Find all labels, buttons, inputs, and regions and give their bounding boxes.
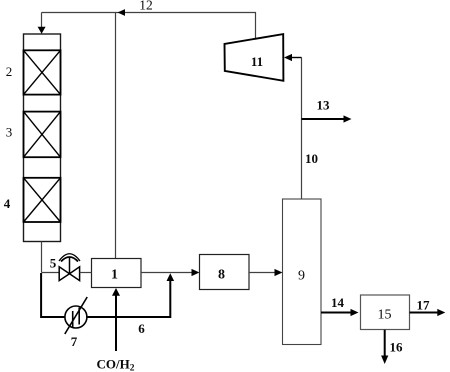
wire: product stream 17: [410, 312, 439, 314]
arrowhead stream 13 (pointing right): [344, 115, 352, 122]
arrowhead into column top: [38, 27, 46, 34]
wire: stream 6 loop to mixing point: [87, 279, 170, 317]
wire: column bottoms line down: [41, 242, 43, 273]
wire: valve to reactor 1: [80, 272, 92, 274]
wire: recycle stream 12 (compressor top to column top): [42, 13, 256, 40]
separator column 9: [283, 199, 322, 345]
valve 5 (control valve bowtie): [59, 254, 80, 281]
unit box 15: [361, 295, 410, 330]
wire: drop into column top: [41, 13, 43, 29]
wire: CO/H2 feed line: [115, 294, 117, 351]
arrowhead into separator 9: [275, 269, 283, 276]
svg-text:6: 6: [138, 321, 145, 336]
wire: bottoms loop down leg: [41, 273, 65, 317]
svg-text:14: 14: [331, 295, 345, 310]
svg-text:CO/H2: CO/H2: [97, 357, 135, 372]
wire: stream 16 down: [384, 330, 386, 358]
svg-text:12: 12: [139, 0, 153, 13]
svg-text:2: 2: [6, 64, 13, 79]
svg-text:5: 5: [50, 256, 57, 271]
svg-text:7: 7: [71, 334, 78, 349]
heat exchanger 7 (circle with zigzag): [65, 297, 87, 334]
reactor box 1: [92, 259, 142, 288]
svg-text:15: 15: [378, 308, 392, 323]
wire: reactor 1 outlet to unit 8: [141, 272, 193, 274]
wire: bottoms stream 14: [321, 312, 352, 314]
svg-text:11: 11: [251, 54, 263, 69]
svg-text:8: 8: [218, 268, 225, 283]
arrowhead CO/H2 feed (pointing up): [112, 288, 120, 296]
packing section 3 (X box): [24, 112, 61, 158]
arrowhead stream 6 (pointing up): [167, 273, 175, 281]
wire: overhead line 10: [301, 58, 303, 200]
arrowhead into compressor 11 (pointing left): [284, 54, 292, 61]
svg-text:10: 10: [305, 151, 318, 166]
compressor 11 (trapezoid): [225, 34, 284, 81]
arrowhead stream 16 (pointing down): [381, 356, 388, 365]
wire: into compressor 11: [291, 57, 302, 59]
column shell (packed column): [24, 34, 61, 242]
arrowhead stream 14 (pointing right): [351, 309, 359, 316]
svg-text:4: 4: [4, 196, 11, 211]
packing section 2 (X box): [24, 50, 61, 94]
svg-text:1: 1: [111, 268, 118, 283]
unit box 8: [200, 255, 250, 290]
wire: purge stream 13: [302, 118, 346, 120]
svg-text:17: 17: [417, 298, 431, 313]
packing section 4 (X box): [24, 178, 61, 222]
wire: to valve 5: [42, 272, 60, 274]
svg-text:16: 16: [390, 340, 404, 355]
svg-text:3: 3: [6, 125, 13, 140]
wire: recycle branch down to reactor 1: [115, 13, 117, 259]
svg-text:13: 13: [317, 98, 331, 113]
svg-text:9: 9: [298, 269, 305, 284]
wire: unit 8 outlet to separator 9: [249, 272, 276, 274]
arrowhead stream 17 (pointing right): [437, 309, 445, 316]
arrowhead into unit 8: [192, 269, 200, 276]
arrowhead on stream 12 (pointing left): [118, 9, 126, 16]
